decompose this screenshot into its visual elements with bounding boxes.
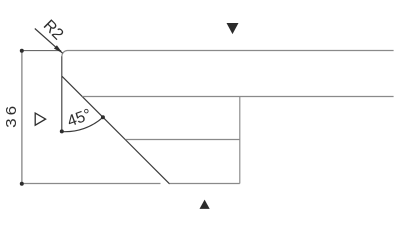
- bottom edge line: [170, 183, 240, 185]
- back vertical of edge build-up: [239, 97, 241, 184]
- layer joint line 1: [82, 96, 393, 98]
- dim 36 dot bottom: [20, 182, 24, 186]
- front vertical edge + angle reference line: [61, 56, 63, 131]
- svg-text:36: 36: [4, 103, 20, 128]
- marker triangle bottom (filled, pointing up): [200, 200, 210, 209]
- leader line R2: [35, 29, 63, 54]
- marker triangle top (filled, pointing down): [227, 23, 239, 34]
- fillet R2 corner arc: [62, 51, 68, 57]
- angle arc: [62, 117, 103, 131]
- dim 36 extension line top: [22, 50, 61, 52]
- svg-text:R2: R2: [40, 17, 67, 44]
- chamfer diagonal 45: [62, 76, 170, 184]
- angle arc dot lower: [60, 129, 64, 133]
- leader arrowhead: [54, 45, 63, 53]
- angle arc dot on diagonal: [101, 115, 105, 119]
- top surface line: [68, 50, 394, 52]
- dim 36 vertical line: [21, 51, 23, 184]
- dim 36 dot top: [20, 49, 24, 53]
- layer joint line 2: [126, 139, 240, 141]
- dim 36 extension line bottom: [22, 183, 161, 185]
- datum triangle left (open, pointing right): [35, 113, 45, 125]
